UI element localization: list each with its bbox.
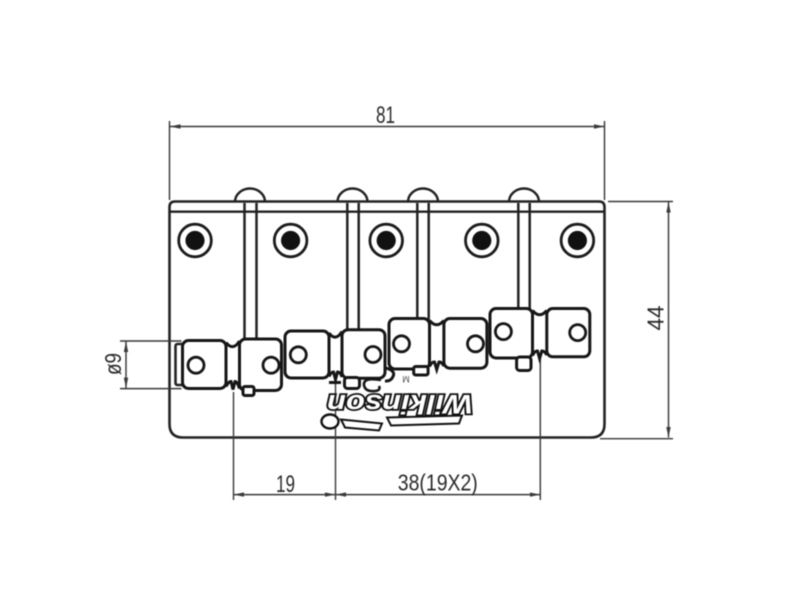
Wilkinson logo underline swoosh left connector — [341, 420, 382, 431]
Wilkinson logo underline swoosh right band — [387, 416, 462, 426]
screw head bump 1 — [235, 189, 265, 203]
dimension phi9 (left) — [120, 341, 182, 389]
saddle 1 — [183, 339, 282, 396]
small bracket curl near saddle 3 — [385, 368, 394, 381]
Wilkinson logo swoosh end loop — [322, 415, 339, 429]
mounting hole 1 — [179, 224, 212, 257]
mounting hole 4 — [466, 224, 499, 257]
svg-text:44: 44 — [643, 305, 669, 330]
string 4 extension line — [539, 356, 541, 500]
small curl mark above logo — [364, 379, 381, 391]
svg-text:M: M — [402, 374, 410, 384]
plate lip line — [171, 210, 604, 212]
saddle 3 — [389, 319, 487, 376]
dimension 44 (right) — [600, 202, 673, 439]
mounting hole 2 — [274, 224, 307, 257]
string 1 extension line — [233, 392, 235, 500]
svg-text:Wilkinson: Wilkinson — [327, 389, 473, 419]
svg-text:19: 19 — [276, 471, 295, 498]
Wilkinson logo text (rotated 180) — [327, 389, 473, 419]
screw head bump 2 — [338, 189, 368, 203]
string 2 extension line — [335, 378, 337, 500]
screw head bump 4 — [509, 189, 539, 203]
svg-text:38(19X2): 38(19X2) — [398, 470, 478, 496]
svg-text:81: 81 — [376, 102, 395, 129]
intonation screw 1 shank — [245, 203, 257, 341]
svg-text:ø9: ø9 — [100, 353, 126, 375]
intonation screw 4 shank — [518, 203, 529, 310]
saddle 1 left anchor tab — [176, 344, 186, 385]
screw head bump 3 — [408, 189, 438, 203]
saddle 2 — [285, 330, 385, 389]
mounting hole 5 — [561, 224, 594, 257]
dimension 81 (top) — [170, 121, 605, 200]
mounting hole 3 — [370, 224, 403, 257]
intonation screw 2 shank — [347, 203, 358, 331]
saddle 4 — [490, 309, 590, 371]
dimensions 19 and 38 (bottom) — [234, 494, 541, 496]
intonation screw 3 shank — [417, 203, 428, 320]
bridge plate outline — [170, 202, 605, 438]
